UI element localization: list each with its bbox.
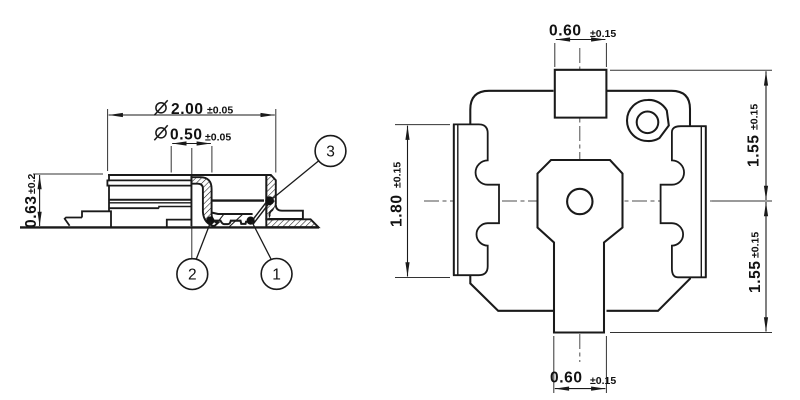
svg-text:0.50: 0.50 (170, 127, 203, 144)
baseline (seating plane) (20, 226, 319, 228)
left rail inner line (457, 124, 459, 275)
leader line to balloon 3 (271, 161, 319, 200)
dim 1.55 top ext line (610, 69, 772, 71)
right lower hatched flange (266, 219, 318, 227)
dim 0.63 top ext line (33, 173, 103, 175)
can left edge (107, 175, 109, 211)
left comb profile (454, 124, 499, 275)
right comb profile (661, 126, 706, 277)
crimp washer square-wave line (214, 221, 247, 224)
svg-text:0.60: 0.60 (550, 370, 583, 387)
dim 0.60 bottom ext lines (553, 336, 555, 393)
dim Ø2.00 dimension line (109, 114, 275, 116)
right rail inner line (700, 126, 702, 277)
leader line to balloon 2 (196, 222, 211, 260)
balloon 1 (261, 259, 292, 290)
can rim line 3 (107, 185, 190, 187)
dim Ø0.50 ext line right (211, 146, 213, 173)
dim 1.55 top dimension line (765, 71, 767, 200)
can wall line 5 (109, 202, 191, 204)
dot 2 (solder joint at boss) (206, 216, 214, 224)
washer hatch stroke a (214, 214, 223, 226)
dim Ø0.50 center line down to balloon 2 (191, 148, 193, 258)
svg-text:±0.05: ±0.05 (207, 105, 233, 117)
dim Ø0.50 dimension line (172, 143, 211, 145)
dim 0.60 top ext lines (554, 43, 556, 67)
balloon 2 (177, 259, 208, 290)
pilot hole inner circle (637, 112, 659, 134)
gull-wing contact sheet outer line (253, 203, 269, 224)
can lower line 6a (109, 207, 159, 209)
svg-text:0.60: 0.60 (549, 23, 582, 40)
right upper foot (bent lead) (269, 205, 303, 219)
right rail outer line (705, 126, 707, 277)
leader line to balloon 1 (252, 221, 272, 259)
svg-text:±0.15: ±0.15 (749, 104, 761, 130)
left rail outer line (453, 124, 455, 275)
pilot hole outer pad (teardrop) (627, 100, 669, 141)
washer hatch stroke b (229, 214, 243, 227)
horizontal center line (dash-dot) (424, 200, 770, 202)
svg-text:±0.15: ±0.15 (392, 162, 404, 188)
svg-text:2: 2 (188, 267, 197, 284)
can wall line 4 (109, 199, 191, 201)
svg-text:1: 1 (272, 267, 281, 284)
terminal left-half block (167, 220, 191, 227)
center paddle hole (567, 189, 592, 214)
dim 0.63 dimension line (39, 175, 41, 226)
dim Ø0.50 diameter symbol (154, 125, 167, 140)
vertical center line (dash-dot) (579, 48, 581, 362)
dim Ø0.50 ext line left (170, 146, 172, 173)
svg-text:±0.15: ±0.15 (590, 28, 616, 40)
dot 3 (solder joint at wall) (265, 196, 274, 205)
dot 1 (solder joint at washer) (247, 217, 255, 225)
svg-text:1.55: 1.55 (746, 134, 763, 167)
svg-text:3: 3 (326, 144, 335, 161)
cavity shelf / diaphragm line (212, 213, 253, 214)
center paddle (keyhole) (538, 160, 623, 333)
center boss hatched wall (191, 177, 218, 226)
svg-text:2.00: 2.00 (171, 101, 204, 118)
plate outline (470, 91, 690, 311)
dim 1.55 middle ext line (712, 200, 772, 202)
right wall inner edge (265, 175, 267, 219)
svg-text:±0.2: ±0.2 (26, 173, 38, 194)
boss center/left edge line (190, 175, 192, 226)
svg-text:±0.15: ±0.15 (590, 375, 616, 387)
balloon 3 (315, 136, 346, 167)
can rim line 2 (107, 179, 190, 181)
right wall hatched (266, 175, 276, 219)
svg-text:1.55: 1.55 (747, 260, 764, 293)
cavity ceiling line (212, 199, 264, 201)
base left lip with chamfer (65, 218, 82, 226)
dim Ø2.00 diameter symbol (154, 100, 167, 115)
dim 1.55 bottom ext line (610, 332, 772, 334)
top tab (555, 70, 607, 118)
dim 0.60 top dimension line (556, 39, 606, 41)
svg-text:±0.15: ±0.15 (750, 232, 762, 258)
dim 1.55 bottom dimension line (765, 202, 767, 332)
dim 1.80 dimension line (407, 126, 409, 277)
dim Ø2.00 ext line right (275, 109, 277, 173)
dim 0.60 bottom dimension line (555, 388, 606, 390)
dim 1.80 ext lines (395, 124, 450, 126)
dim Ø2.00 ext line left (107, 109, 109, 171)
svg-text:±0.05: ±0.05 (205, 132, 231, 144)
can top edge (108, 174, 266, 176)
base pedestal block (82, 211, 111, 226)
svg-text:0.63: 0.63 (23, 195, 40, 228)
can lower line 6b step (159, 207, 191, 209)
svg-text:1.80: 1.80 (389, 194, 406, 227)
gull-wing contact sheet inner line (251, 202, 267, 223)
